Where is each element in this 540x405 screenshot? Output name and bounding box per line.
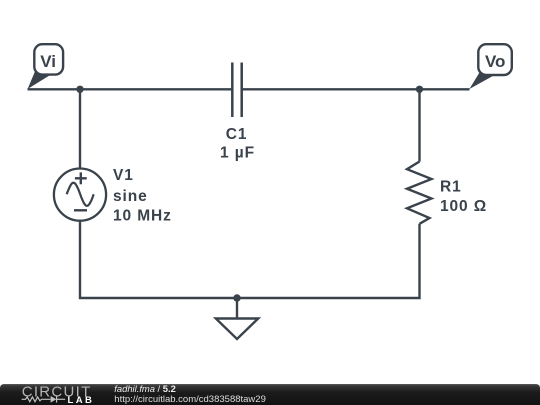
svg-text:C1: C1 <box>226 126 248 143</box>
svg-text:http://circuitlab.com/cd383588: http://circuitlab.com/cd383588taw29 <box>114 394 266 405</box>
svg-text:sine: sine <box>113 188 148 205</box>
svg-text:1 µF: 1 µF <box>220 144 255 161</box>
svg-text:LAB: LAB <box>68 395 95 405</box>
svg-text:100 Ω: 100 Ω <box>440 198 487 215</box>
svg-text:Vi: Vi <box>40 52 56 71</box>
svg-text:V1: V1 <box>113 167 134 184</box>
svg-text:10 MHz: 10 MHz <box>113 208 172 225</box>
svg-text:R1: R1 <box>440 178 462 195</box>
svg-text:fadhil.fma / 5.2: fadhil.fma / 5.2 <box>114 383 176 394</box>
svg-text:Vo: Vo <box>485 52 505 71</box>
